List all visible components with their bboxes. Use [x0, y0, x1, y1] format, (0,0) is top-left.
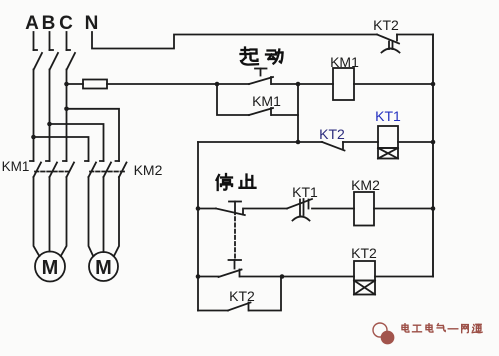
wire stop row left [198, 208, 216, 210]
junction KT1 row centre [296, 140, 301, 145]
svg-text:KT1: KT1 [292, 184, 318, 200]
start button SB2 (起动) [249, 69, 273, 85]
wire KM2 coil to rail [374, 208, 433, 210]
fuse FU [83, 80, 107, 89]
svg-text:KM2: KM2 [134, 162, 163, 178]
right control rail [432, 35, 434, 277]
watermark logo [373, 323, 394, 344]
disconnect switch phase C [67, 32, 76, 70]
wire C phase to KM2 column 3 [67, 109, 120, 161]
timer coil KT1 [375, 108, 401, 159]
wire KT2 contact to right rail [397, 34, 433, 36]
wire N to control rail [92, 32, 377, 49]
svg-text:KT2: KT2 [319, 126, 345, 142]
contactor main contacts KM2 [85, 161, 163, 178]
junction stop-linked row left [196, 274, 201, 279]
stop button linked contact normally-open [219, 260, 242, 277]
timer coil KT2 [351, 245, 377, 295]
svg-text:M: M [95, 257, 112, 279]
wire motor2 leads [89, 177, 94, 256]
contactor coil KM2 [351, 177, 380, 226]
junction A phase tap [31, 135, 36, 140]
wire fuse to start button [107, 83, 249, 85]
contactor main contacts KM1 [2, 159, 74, 177]
wire stop-linked row left [198, 276, 219, 278]
junction C phase tap [64, 107, 69, 112]
watermark text 电工电气一网通 [402, 324, 409, 332]
junction C phase fuse tap [64, 82, 69, 87]
junction start-branch left [215, 82, 220, 87]
svg-text:N: N [85, 13, 99, 34]
svg-text:KM2: KM2 [351, 177, 380, 193]
junction KM1 rail [431, 82, 436, 87]
junction KM2 rail [431, 206, 436, 211]
wire vertical start junction down [297, 84, 299, 142]
junction B phase tap [47, 122, 52, 127]
wire motor1 leads [34, 177, 40, 256]
svg-text:KT2: KT2 [229, 288, 255, 304]
svg-text:KM1: KM1 [252, 93, 281, 109]
wire KT1 contact to KM2 coil [312, 208, 354, 210]
wire phase C vertical [66, 70, 68, 162]
wire phase B vertical [49, 70, 51, 162]
timer self-hold contact KT2 normally-open (bottom) [228, 288, 255, 311]
wire bottom row [198, 310, 228, 312]
motor M2 [89, 252, 118, 281]
wire KT1 coil to rail [398, 141, 433, 143]
svg-text:KT1: KT1 [375, 108, 401, 124]
wire A phase to KM2 column 1 [34, 137, 89, 161]
wire stop to KT1 contact [245, 208, 288, 210]
wire bottom row right riser [249, 277, 281, 311]
wire fuse row left [67, 83, 84, 85]
svg-text:A: A [25, 13, 39, 34]
left control rail [197, 142, 199, 311]
wire KM1 coil to rail [354, 83, 433, 85]
wire linked contact to KT2 coil [240, 276, 354, 278]
wire phase A vertical [33, 70, 35, 162]
svg-text:B: B [42, 13, 56, 34]
start label 起动 [241, 48, 259, 65]
timer contact KT2 normally-open [319, 126, 345, 151]
stop button SB1 (停止) normally-closed [216, 202, 245, 216]
mechanical link stop button [234, 211, 236, 258]
junction stop row left [196, 206, 201, 211]
timer contact KT1 delayed [287, 184, 318, 221]
disconnect switch phase A [34, 32, 43, 70]
svg-text:KM1: KM1 [2, 159, 30, 174]
timer contact KT2 normally-closed delayed (top) [373, 17, 399, 53]
wire start button to KM1 coil [272, 83, 334, 85]
svg-text:KT2: KT2 [351, 245, 377, 261]
wire KT2 coil to rail corner [375, 276, 433, 278]
svg-text:C: C [59, 13, 73, 34]
contactor coil KM1 [330, 54, 359, 100]
svg-text:M: M [42, 257, 59, 279]
wire KT1-coil row left [198, 141, 322, 143]
wire KT2 contact to KT1 coil [343, 141, 378, 143]
junction KT2 coil row [280, 274, 285, 279]
wire B phase to KM2 column 2 [50, 124, 104, 161]
junction start-branch right [296, 82, 301, 87]
junction KT1 rail [431, 140, 436, 145]
stop label 停止 [217, 174, 233, 190]
contactor auxiliary contact KM1 (self-hold) [217, 84, 298, 115]
motor M1 [35, 252, 65, 282]
disconnect switch phase B [50, 32, 59, 70]
svg-text:KT2: KT2 [373, 17, 399, 33]
